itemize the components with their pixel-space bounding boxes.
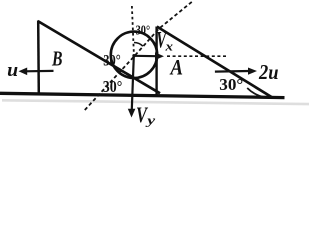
ground shadow xyxy=(2,99,309,105)
svg-text:2u: 2u xyxy=(258,60,278,84)
wedge B left vertical edge xyxy=(37,21,40,95)
ground xyxy=(0,93,285,97)
wedge B hypotenuse (30 deg incline) xyxy=(38,21,160,93)
svg-text:A: A xyxy=(169,55,183,80)
wedge A hypotenuse xyxy=(157,27,273,98)
svg-text:x: x xyxy=(164,39,173,54)
dashed horizontal continuation of Vx line xyxy=(167,55,226,57)
svg-text:30°: 30° xyxy=(103,53,121,70)
angle arc 30 deg inside ball xyxy=(134,42,143,46)
centre junction dot xyxy=(132,54,135,57)
svg-text:30°: 30° xyxy=(136,23,151,38)
ball circle xyxy=(111,32,157,78)
svg-text:u: u xyxy=(7,60,18,81)
svg-text:B: B xyxy=(51,46,62,70)
dashed vertical reference line xyxy=(132,6,134,55)
velocity arrow 2u (wedge A moving right) xyxy=(215,70,249,73)
svg-text:30°: 30° xyxy=(103,77,123,96)
velocity arrow u (wedge B moving left) xyxy=(24,70,54,73)
svg-text:30°: 30° xyxy=(219,75,243,94)
wedge A left vertical edge xyxy=(155,27,157,98)
angle arc 30 deg at wedge A ground corner xyxy=(247,88,265,97)
velocity component arrow Vx xyxy=(134,55,157,58)
dashed incline-normal line through ball centre xyxy=(85,1,194,111)
velocity component arrow Vy xyxy=(132,56,134,112)
